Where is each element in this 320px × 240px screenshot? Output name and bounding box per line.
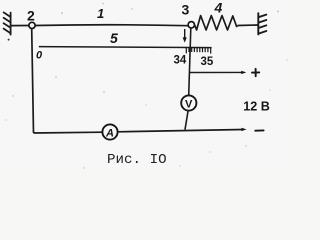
speck below left wall [8, 39, 10, 41]
paper noise speckles [5, 3, 287, 169]
svg-text:4: 4 [214, 0, 223, 16]
svg-text:0: 0 [36, 50, 43, 62]
bottom wire right segment with arrow [118, 130, 243, 132]
svg-text:V: V [185, 99, 193, 111]
wire 5 with ruler baseline [39, 47, 212, 48]
spring 4 [195, 16, 238, 30]
bottom wire left segment [34, 131, 103, 134]
svg-text:A: A [105, 128, 114, 140]
svg-text:Рис. IO: Рис. IO [107, 152, 167, 168]
positive terminal wire with arrow [190, 71, 243, 73]
wire: voltmeter down to bottom wire [185, 111, 188, 130]
svg-text:3: 3 [182, 2, 190, 18]
svg-text:1: 1 [97, 6, 104, 21]
wire: spring to right wall [238, 24, 259, 27]
wire: wall to node 2 [11, 25, 29, 27]
voltmeter V [181, 95, 196, 110]
ruler tick marks [186, 47, 210, 53]
left wall (fixed support) [4, 12, 11, 34]
right wall (fixed support) [258, 13, 266, 34]
svg-text:2: 2 [27, 8, 35, 24]
svg-text:12 В: 12 В [243, 100, 270, 114]
plus terminal symbol [252, 69, 259, 76]
ammeter A [102, 124, 117, 139]
node 3 (terminal circle) [188, 22, 194, 28]
svg-text:5: 5 [110, 30, 118, 46]
node 2 (terminal circle) [29, 22, 35, 28]
left vertical wire (node 2 down to bottom wire) [32, 29, 34, 133]
minus terminal symbol [255, 129, 263, 131]
wire 1 (slide wire from node 2 to node 3) [35, 24, 188, 27]
pointer arrow from node 3 down to scale [183, 29, 187, 42]
main vertical wire (node 3 down to voltmeter) [189, 28, 191, 95]
svg-text:34: 34 [174, 55, 187, 67]
svg-text:35: 35 [201, 56, 214, 68]
